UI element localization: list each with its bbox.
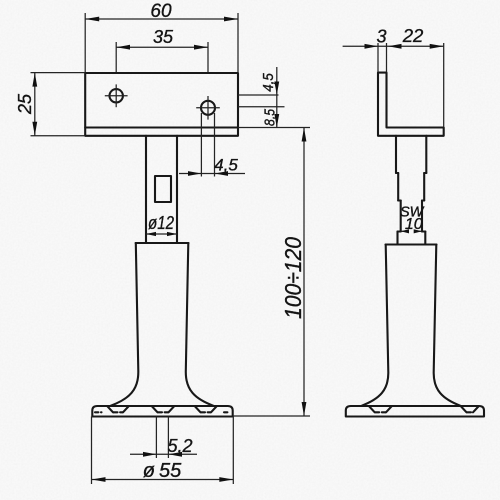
svg-text:8,5: 8,5 [262,108,279,126]
front view: base pad P1 [95,406,129,412]
front view: trumpet foot [111,243,214,406]
svg-text:35: 35 [153,27,174,47]
side view: base pad P4 [369,406,391,412]
front view: stem o12 [146,136,177,243]
hole H1 (left, o4.5) [105,84,128,107]
svg-text:4,5: 4,5 [214,156,238,175]
side view: hex section SW10 [398,201,426,245]
front view: plate flange inner line [85,126,238,128]
dimension o12 [146,213,177,236]
side view: base pad P5 [461,406,479,412]
dimension 4,5 / 8,5 hole offsets [238,67,285,128]
side view: stem upper section [396,136,426,201]
dimension 35 [116,27,208,72]
svg-text:100÷120: 100÷120 [280,237,306,319]
dimension 60 [85,1,238,72]
svg-text:ø 55: ø 55 [143,460,182,482]
dimension 3 and 22 [343,25,444,127]
svg-text:4,5: 4,5 [260,73,277,92]
front view: bracket plate 60x25 [85,73,238,136]
front view: base pad P2 [152,406,174,412]
dimension 100:120 [233,128,310,417]
front view: base pad P3 [195,406,230,412]
svg-text:22: 22 [402,25,424,46]
svg-text:3: 3 [376,27,386,47]
side view: base disc [346,406,484,417]
dimension 25 [15,73,85,136]
svg-text:25: 25 [15,93,35,115]
dimension 5,2 [130,417,197,459]
side view: L-bracket [378,73,444,136]
front view: base disc o55 [92,406,232,417]
svg-text:ø12: ø12 [148,213,174,233]
dimension 4,5 hole diameter [179,113,245,177]
front view: stem slot [155,176,171,202]
side view: trumpet foot [362,245,461,406]
label SW10 with flat-width arrows [400,205,425,234]
hole H2 (right, o4.5) [196,96,220,120]
dimension o55 [92,417,234,485]
svg-text:60: 60 [150,1,172,22]
svg-text:5,2: 5,2 [167,436,192,456]
